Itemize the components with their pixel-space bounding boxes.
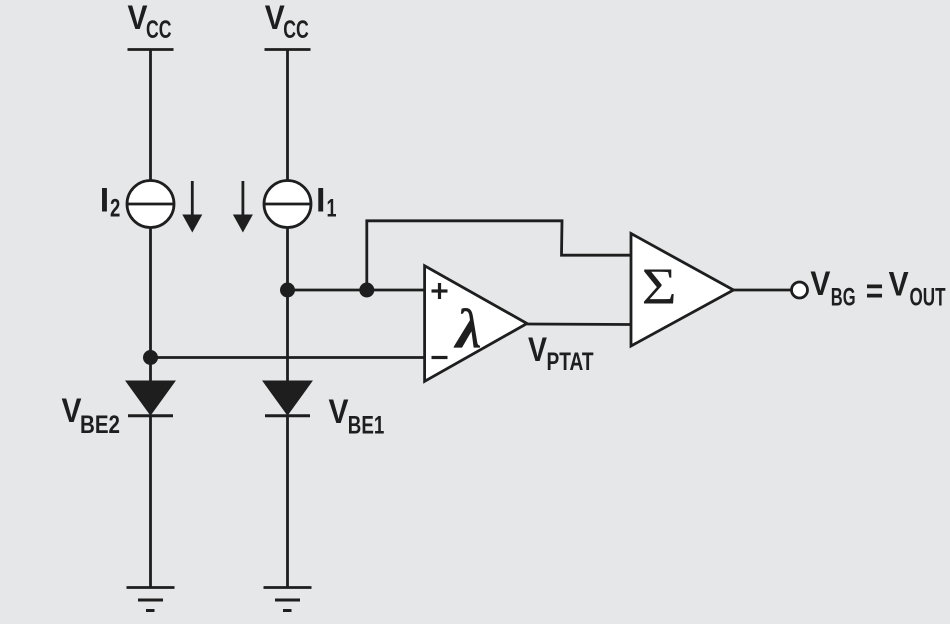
svg-text:1: 1 [327, 194, 337, 222]
svg-text:BE2: BE2 [80, 411, 120, 439]
svg-text:V: V [62, 392, 82, 430]
svg-text:I: I [316, 182, 325, 220]
svg-text:Σ: Σ [642, 258, 677, 315]
svg-text:CC: CC [283, 16, 309, 44]
svg-text:V: V [329, 393, 349, 431]
svg-text:CC: CC [146, 16, 172, 44]
svg-text:V: V [128, 0, 148, 37]
svg-text:V: V [810, 265, 830, 303]
svg-text:λ: λ [454, 299, 482, 360]
svg-text:OUT: OUT [910, 284, 946, 312]
svg-text:V: V [528, 331, 547, 369]
svg-text:BG: BG [831, 284, 856, 312]
svg-text:V: V [889, 266, 909, 304]
svg-text:PTAT: PTAT [547, 348, 594, 376]
svg-text:2: 2 [110, 194, 120, 222]
svg-text:=: = [866, 273, 884, 311]
svg-text:BE1: BE1 [348, 412, 385, 440]
svg-text:V: V [265, 0, 285, 37]
svg-text:I: I [100, 182, 109, 220]
